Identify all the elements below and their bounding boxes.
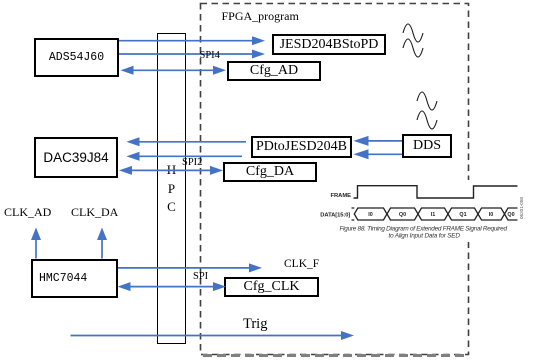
block DDS <box>402 134 452 158</box>
node HPC label <box>157 161 186 217</box>
net label CLK_F <box>284 258 319 270</box>
block ADS54J60 <box>34 38 119 77</box>
wire DDS to PDtoJESD204B top <box>354 136 403 146</box>
net label CLK_DA <box>71 205 118 220</box>
block DAC39J84 <box>34 137 118 178</box>
net label Trig <box>243 316 267 333</box>
net label CLK_AD <box>4 205 51 220</box>
block JESD204BStoPD <box>272 34 386 55</box>
wire ADS54J60 second data lane <box>119 50 265 59</box>
wire SPI4 bus ADS54J60 to Cfg_AD (bidirectional) <box>121 66 227 75</box>
block HMC7044 <box>31 259 118 298</box>
sine symbol near JESD204BStoPD <box>403 24 423 57</box>
block Cfg_DA <box>223 162 317 182</box>
wire HMC7044 CLK_F output <box>118 263 262 272</box>
FRAME waveform <box>354 186 518 198</box>
block Cfg_CLK <box>224 277 319 297</box>
net label SPI2 <box>182 157 202 168</box>
wire PDtoJESD204B to DAC39J84 (data) <box>127 137 247 146</box>
wire SPI bus HMC7044 to Cfg_CLK (bidirectional) <box>118 282 227 291</box>
wire CLK_DA up arrow <box>97 228 107 259</box>
block Cfg_AD <box>227 61 321 81</box>
wire SPI2 bus DAC39J84 to Cfg_DA (bidirectional) <box>119 166 223 175</box>
sine symbol above DDS <box>417 92 437 129</box>
wire Trig <box>71 331 355 340</box>
block HPC connector bar <box>157 33 186 344</box>
block PDtoJESD204B <box>251 136 352 158</box>
net label SPI <box>193 271 208 282</box>
wire ADS54J60 to JESD204BStoPD (data) <box>119 36 265 45</box>
net label SPI4 <box>200 50 220 61</box>
node FPGA_program label <box>222 9 299 24</box>
wire DDS to PDtoJESD204B bottom <box>354 149 403 159</box>
wire CLK_AD up arrow <box>31 228 41 259</box>
wire PDtoJESD204B to DAC39J84 second lane <box>127 152 243 161</box>
DATA bus waveform <box>352 208 518 220</box>
